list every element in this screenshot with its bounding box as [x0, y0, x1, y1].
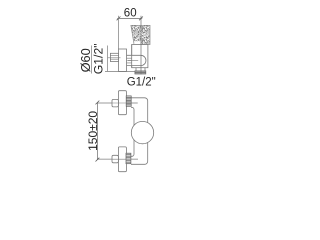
mixer knob circle: [131, 121, 153, 143]
top centerline overdraw: [97, 102, 137, 104]
wall flange (escutcheon side view): [119, 49, 127, 71]
cartridge thread lines: [127, 58, 132, 63]
dimension 150 tick top: [96, 101, 100, 105]
flange bottom extended line: [105, 71, 135, 73]
front body inner outline: [131, 107, 134, 156]
cartridge centerline: [128, 60, 138, 62]
svg-text:G1/2": G1/2": [127, 77, 156, 89]
stub thread lines: [110, 56, 118, 60]
dimension 150 tick bottom: [96, 158, 100, 162]
stub centerline: [108, 57, 121, 59]
extension line left (wall): [118, 16, 120, 49]
top union centerline: [97, 102, 137, 104]
top union cover tube: [118, 91, 126, 115]
vertical centerline through handle body outlet: [140, 16, 142, 75]
dimension 60 line: [117, 17, 142, 19]
bottom centerline overdraw: [97, 158, 138, 160]
handle notch: [134, 41, 140, 44]
dimension 150+-20 line: [96, 103, 98, 160]
front body outer outline: [131, 98, 148, 165]
handle knob (speckled): [131, 25, 150, 44]
dimension 60 tick right: [139, 17, 143, 21]
top hex nut: [112, 99, 118, 107]
dimension 60 tick left: [117, 17, 121, 21]
bottom union centerline: [97, 158, 138, 160]
svg-text:60: 60: [124, 8, 137, 20]
top knurled nut: [126, 96, 131, 106]
body left edge overdraw: [131, 45, 133, 68]
bottom union cover tube: [118, 147, 126, 172]
outlet nut (hatched): [135, 71, 146, 74]
cartridge D-housing: [127, 55, 146, 65]
wall pipe stub: [110, 53, 118, 61]
svg-text:150±20: 150±20: [86, 111, 100, 151]
label leader line for O60: [91, 46, 93, 74]
label leader line for G1/2 side: [107, 46, 109, 72]
outlet stub below body: [136, 68, 145, 71]
bottom hex nut: [112, 155, 118, 163]
svg-text:G1/2": G1/2": [92, 43, 106, 74]
body (side view): [132, 45, 148, 68]
bottom knurled nut: [126, 153, 131, 164]
